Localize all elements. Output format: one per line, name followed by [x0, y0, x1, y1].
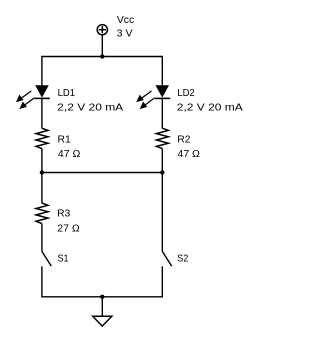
svg-text:47 Ω: 47 Ω — [178, 148, 201, 160]
svg-text:47 Ω: 47 Ω — [58, 148, 81, 160]
wire Vcc stub — [101, 35, 103, 57]
junction dot at Vcc on top rail — [100, 54, 104, 58]
svg-text:S2: S2 — [177, 253, 188, 265]
wire bottom rail — [42, 296, 162, 298]
wire LED1 cathode to R1 — [41, 98, 43, 128]
junction dot ground node — [100, 295, 104, 299]
resistor R3 — [36, 203, 48, 223]
resistor R1 — [36, 128, 48, 148]
wire middle rail (node A to node B) — [42, 172, 162, 174]
ground symbol — [93, 316, 112, 326]
wire R2 through node B to S2 — [161, 149, 163, 252]
switch S1 (open SPST) — [42, 251, 51, 266]
svg-text:S1: S1 — [58, 253, 69, 265]
wire R1 to node A — [41, 149, 43, 173]
LED LD2 — [137, 86, 170, 109]
svg-text:R1: R1 — [58, 134, 71, 146]
resistor R2 — [156, 128, 168, 148]
wire LED1 anode (top rail to LD1) — [41, 56, 43, 87]
svg-text:3 V: 3 V — [117, 27, 133, 39]
wire ground stub — [101, 297, 103, 316]
svg-text:2,2 V 20 mA: 2,2 V 20 mA — [177, 101, 243, 113]
wire LED2 anode (top rail to LD2) — [161, 56, 163, 87]
svg-text:R2: R2 — [177, 134, 190, 146]
junction dot node B (right) — [160, 170, 164, 174]
wire LED2 cathode to R2 — [161, 98, 163, 128]
power supply Vcc terminal — [97, 25, 107, 35]
svg-text:LD2: LD2 — [177, 87, 195, 99]
svg-text:2,2 V 20 mA: 2,2 V 20 mA — [57, 101, 123, 113]
svg-text:27 Ω: 27 Ω — [57, 222, 80, 234]
wire top rail — [42, 56, 162, 58]
LED LD1 — [17, 86, 50, 109]
wire R3 to S1 — [41, 224, 43, 252]
svg-text:LD1: LD1 — [58, 87, 76, 99]
svg-text:R3: R3 — [57, 208, 70, 220]
wire S1 to bottom rail — [41, 266, 43, 297]
switch S2 (open SPST) — [162, 251, 171, 266]
wire S2 to bottom rail — [161, 266, 163, 297]
junction dot node A (left) — [40, 170, 44, 174]
svg-text:Vcc: Vcc — [117, 14, 134, 26]
wire node A to R3 — [41, 173, 43, 204]
